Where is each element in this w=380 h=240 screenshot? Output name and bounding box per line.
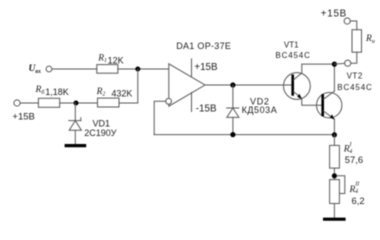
svg-text:DA1 OP-37E: DA1 OP-37E xyxy=(176,41,231,51)
zener diode VD1 xyxy=(69,118,82,131)
op-amp DA1 xyxy=(169,64,205,106)
wire feedback from bottom rail to inverting input xyxy=(154,101,166,134)
op-amp inverting input bubble xyxy=(166,98,172,104)
wire node B down to VD1 xyxy=(74,103,76,121)
wire Rb to node B xyxy=(60,102,98,104)
resistor R4b trimmer xyxy=(330,180,340,204)
svg-text:BC454C: BC454C xyxy=(337,83,372,92)
wire VD1 to ground xyxy=(74,130,76,144)
node VD2 bottom junction dot xyxy=(230,132,235,137)
op-amp negative supply pin xyxy=(191,93,193,112)
svg-text:6,2: 6,2 xyxy=(352,195,365,206)
svg-text:VD1: VD1 xyxy=(93,118,111,128)
wire bottom rail xyxy=(154,134,334,136)
resistor Rn xyxy=(352,30,362,53)
node VD2 top junction dot xyxy=(230,82,235,87)
wire VT1 collector xyxy=(302,64,335,73)
transistor VT1 xyxy=(284,73,311,100)
node A junction dot xyxy=(135,67,140,72)
resistor R2 xyxy=(98,98,120,107)
wire rail to R4a xyxy=(333,135,335,146)
node B junction dot xyxy=(74,101,79,106)
ground right xyxy=(325,218,344,221)
svg-text:1,18K: 1,18K xyxy=(45,87,69,97)
wire R4a to node C xyxy=(333,168,335,180)
resistor R4a xyxy=(330,145,340,168)
wire load terminal to collectors node xyxy=(334,62,344,65)
svg-text:+15В: +15В xyxy=(12,111,34,122)
svg-text:12K: 12K xyxy=(108,55,124,65)
op-amp positive supply pin xyxy=(191,59,193,77)
wire op-amp output xyxy=(205,84,292,86)
svg-text:432K: 432K xyxy=(111,88,132,98)
wire R1 to node A xyxy=(118,68,169,70)
svg-text:BC454C: BC454C xyxy=(275,51,310,60)
wire R2 up to node A xyxy=(119,69,138,103)
ground left xyxy=(66,144,84,147)
wire VD2 top xyxy=(232,85,234,108)
wire VT1 emitter to VT2 base xyxy=(302,99,322,106)
wire VT2 emitter down xyxy=(333,119,335,134)
svg-text:2С190У: 2С190У xyxy=(84,128,117,138)
wire VT2 collector xyxy=(333,64,335,91)
svg-text:-15В: -15В xyxy=(196,103,217,114)
svg-text:VT2: VT2 xyxy=(347,72,363,81)
svg-text:КД503А: КД503А xyxy=(242,105,278,115)
wire R4b to ground xyxy=(333,204,335,219)
resistor Rb xyxy=(38,98,59,107)
svg-text:57,6: 57,6 xyxy=(345,154,363,165)
node +15V left terminal xyxy=(14,100,20,106)
resistor R1 xyxy=(97,65,118,74)
node +15V top right terminal xyxy=(344,18,350,24)
wire Rn bottom to load terminal xyxy=(351,52,357,63)
node load terminal xyxy=(345,60,351,66)
wire +15V to Rb xyxy=(20,102,38,104)
node emitter rail junction dot xyxy=(332,132,337,137)
transistor VT2 xyxy=(317,91,342,119)
svg-text:+15В: +15В xyxy=(194,62,218,73)
wire Uin to R1 xyxy=(52,68,97,70)
node Uin input terminal xyxy=(46,66,52,72)
node collectors junction dot xyxy=(332,62,337,67)
wire R4b wiper tap to node C xyxy=(337,176,345,194)
wire VD2 to bottom rail xyxy=(232,117,234,134)
svg-text:4: 4 xyxy=(355,188,358,195)
svg-text:VT1: VT1 xyxy=(284,41,299,50)
node C junction dot xyxy=(332,173,337,178)
wire terminal to Rn top xyxy=(350,21,357,30)
svg-text:+15В: +15В xyxy=(321,9,347,20)
diode VD2 xyxy=(227,108,239,117)
